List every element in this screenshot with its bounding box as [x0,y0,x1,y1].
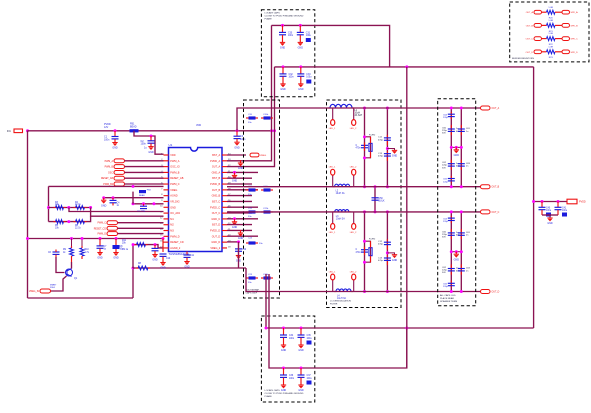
wire row14 right [227,229,252,231]
svg-text:LED_1: LED_1 [329,232,336,234]
capacitor C2 with ground [150,135,153,138]
node label OUT_B [481,185,491,189]
pin 25 U1 right PVDD_C [222,206,227,208]
inductor L4 [334,291,336,293]
svg-text:100n: 100n [104,138,110,141]
wire resistor to label [555,24,562,26]
node junction VDD rail B [273,129,276,132]
svg-text:100u: 100u [307,378,313,380]
svg-text:RESET_AB: RESET_AB [101,177,113,180]
wire left frame bottom [28,297,134,299]
pin 4 U1 left PWM_B [164,171,169,173]
wire PVDD rail2 [406,67,408,368]
svg-text:100u: 100u [307,338,313,340]
svg-text:C5 470p: C5 470p [137,211,146,213]
node label OUT_C [481,210,491,214]
wire EMI rail left AB [450,108,452,187]
svg-text:100u: 100u [306,77,312,79]
svg-text:BST_B: BST_B [212,177,220,180]
test pad LED_2 channel 1 top [353,108,355,120]
wire snubber bracket channel 2 [365,241,371,262]
svg-text:PLANE: PLANE [265,395,273,398]
wire EMI rail right CD [460,212,462,292]
pin 12 U1 left M1 [164,218,169,220]
svg-text:OUT_D: OUT_D [492,292,500,294]
wire PVDD_AB top [272,25,390,67]
svg-text:1.0R: 1.0R [548,20,553,22]
wire to resistor R21 [542,24,547,26]
pin 5 U1 left RESET_AB [164,177,169,179]
capacitor C22 [249,210,256,213]
svg-text:GND: GND [454,154,460,157]
wire pin row 9 [133,203,164,205]
capacitor C21 [249,188,256,191]
wire input horizontal [28,130,275,132]
wire bootstrap drop B [269,274,284,368]
pin 14 U1 left M3 [164,230,169,232]
test pad LED_1 channel 2 top [332,212,334,224]
svg-text:FILTER: FILTER [330,304,338,306]
wire right frame vertical [132,268,134,298]
svg-text:GND: GND [234,146,240,149]
svg-text:RESET_CD: RESET_CD [94,228,107,230]
svg-text:10uH 3A: 10uH 3A [336,217,345,220]
svg-text:GND: GND [454,258,460,261]
capacitor C9 with ground [154,243,157,246]
svg-text:SPEAKER TERM: SPEAKER TERM [440,300,457,303]
svg-text:PVDD_B: PVDD_B [210,183,220,186]
svg-text:1.0R: 1.0R [548,46,553,48]
svg-text:BEAD: BEAD [130,125,137,128]
node junction bottom-net input [26,237,29,240]
wire PWM_B2 to U1 [125,183,164,185]
svg-text:220p: 220p [443,221,449,223]
svg-text:LED_1: LED_1 [329,271,336,273]
wire PVDD_CD top [275,66,534,68]
pin 21 U1 right PVDD_D [222,230,227,232]
svg-text:OUT_D: OUT_D [526,52,534,54]
svg-text:M3: M3 [170,230,174,233]
wire RESET_CD to U1 [118,227,164,229]
capacitor C3 with ground [236,129,239,132]
capacitor C10 with ground [162,237,165,240]
wire PVDD vertical A [227,25,272,160]
wire PVDD_AB bottom [266,327,534,329]
svg-text:PVDD_A: PVDD_A [210,160,220,163]
pin 2 U1 left PWM_A [164,160,169,162]
wire RESET_AB to U1 [125,177,164,179]
wire PWM_D to U1 [118,233,164,235]
svg-text:GND_D: GND_D [211,241,220,244]
svg-text:470p: 470p [378,139,384,141]
capacitor C37 with ground [300,367,303,370]
capacitor EMI CD bottom small [450,281,452,288]
ground at row 8 [102,196,105,199]
ferrite bead FB1 [133,129,136,132]
wire C12 rail to row268 [238,242,240,268]
pin 23 U1 right GND_C [222,218,227,220]
svg-text:50V: 50V [442,167,446,169]
svg-text:100u: 100u [562,210,568,212]
svg-text:R 2R2: R 2R2 [369,239,376,241]
svg-text:VREG_IN: VREG_IN [29,291,39,293]
wire resistor to label [555,38,562,40]
capacitor C22b [264,210,271,213]
svg-text:GND_A: GND_A [212,171,221,174]
pin 17 U1 left AGND_2 [164,247,169,249]
capacitor C30 with ground [281,24,284,27]
svg-text:C36: C36 [289,375,294,377]
capacitor EMI AB r2c2 [460,160,462,170]
svg-text:470n: 470n [356,147,362,149]
svg-text:BST_D: BST_D [212,224,220,227]
pin 29 U1 right PVDD_B [222,183,227,185]
pin 11 U1 left OC_ADJ [164,212,169,214]
node junction row7 rail [132,185,135,188]
svg-text:LED_2: LED_2 [350,167,357,169]
svg-text:SPK_A: SPK_A [571,11,579,14]
resistor R6 [76,220,85,224]
svg-text:100n: 100n [240,138,246,141]
capacitor C33 with ground [299,65,302,68]
capacitor rail channel 2 lower [386,255,388,265]
svg-text:50V: 50V [442,133,446,135]
svg-text:LED_2: LED_2 [350,232,357,234]
svg-text:GND: GND [152,259,158,262]
svg-text:100u: 100u [546,210,552,212]
wire OUT_A [237,108,481,131]
svg-text:LOCATE CAPS: LOCATE CAPS [265,12,281,15]
svg-text:C31: C31 [306,32,311,34]
wire PWM_B to U1 [125,166,164,168]
resistor R22 [547,37,556,41]
capacitor EMI AB r1c2 [460,125,462,135]
svg-text:22.1k: 22.1k [75,227,81,229]
capacitor C40 [541,200,544,203]
node junction frame row [132,267,135,270]
svg-text:C35: C35 [307,335,312,337]
inductor L3 [333,211,335,213]
capacitor rail channel 1 lower [386,151,388,161]
wire pin row 8 [104,197,164,199]
svg-text:470p: 470p [378,156,384,158]
svg-text:3A SAT: 3A SAT [355,114,363,117]
capacitor C6 Q1 base [53,252,60,254]
svg-text:50V: 50V [442,272,446,274]
svg-text:GND: GND [160,267,166,270]
ground snubber channel 1 [386,147,389,150]
wire network loop top [49,185,164,187]
svg-text:BUFFER RESISTORS: BUFFER RESISTORS [512,58,535,60]
svg-text:1.0R: 1.0R [548,7,553,9]
svg-text:M1: M1 [170,218,174,221]
wire bootstrap drop A [265,274,267,328]
ground EMI CD [451,251,461,253]
svg-text:GND: GND [298,389,304,392]
svg-text:10uH 3A: 10uH 3A [336,192,345,195]
capacitor C20 [249,116,256,119]
wire R10 connections [81,239,83,247]
svg-text:VDD: VDD [170,154,175,157]
svg-text:PVDD_D: PVDD_D [210,230,220,233]
pin 9 U1 left VR_DIG [164,200,169,202]
wire resistor to label [555,11,562,13]
pin 19 U1 right GND_D [222,241,227,243]
svg-text:100n: 100n [288,35,294,37]
node junction row9 [132,202,135,205]
svg-text:OUT_B: OUT_B [492,187,500,189]
svg-text:R10: R10 [85,249,90,251]
capacitor EMI AB r2c1 [450,160,452,170]
capacitor C32 with ground [282,65,285,68]
section box PVDD decoupling top [261,10,314,97]
svg-text:22.1k: 22.1k [75,204,81,206]
svg-text:GND: GND [298,88,304,91]
svg-text:OUT_B: OUT_B [212,189,221,192]
svg-text:GND: GND [392,155,398,158]
node junction R9 top [70,237,73,240]
svg-text:220p: 220p [443,286,449,288]
svg-text:GND: GND [112,147,118,150]
svg-text:PVDD: PVDD [579,201,586,204]
capacitor C41 [557,200,560,203]
svg-text:PWM_C: PWM_C [170,183,180,186]
node label SPK_A [562,10,570,14]
svg-text:BULK: BULK [379,201,385,203]
svg-text:100n: 100n [289,378,295,380]
svg-text:CLOSE TO PVDD PINS AND GROUND: CLOSE TO PVDD PINS AND GROUND [265,15,304,18]
svg-text:AGND_2: AGND_2 [170,247,181,250]
wire to resistor R23 [542,51,547,53]
wire row12 right with ground [227,218,258,220]
ground PVCC caps [549,215,551,218]
svg-text:GND: GND [392,259,398,262]
svg-text:OUT_C: OUT_C [492,212,500,214]
svg-text:C20b: C20b [263,114,269,116]
svg-text:VREG_2: VREG_2 [210,247,220,250]
resistor R9 vertical [71,246,73,248]
pin 6 U1 left PWM_C [164,183,169,185]
svg-text:PWM_A: PWM_A [105,160,114,163]
svg-text:OUT_B: OUT_B [526,25,534,27]
node label OUT_D [481,290,491,294]
wire Q1 emitter to VREG [51,276,67,291]
capacitor C23b [264,276,271,279]
capacitor snubber channel 2 [361,250,368,252]
capacitor C31 with ground [299,24,302,27]
test pad LED_1 channel 1 top [332,108,334,120]
node label SPK_D [562,50,570,54]
svg-text:1.0R: 1.0R [548,33,553,35]
wire EMI rail right AB [460,108,462,187]
pin 28 U1 right OUT_B [222,189,227,191]
ground snubber channel 2 [386,251,389,254]
wire row11 right [227,212,252,214]
svg-text:LED_2: LED_2 [350,271,357,273]
wire resistor to label [555,51,562,53]
wire row7 right [227,189,258,191]
wire row13 right [227,224,252,226]
pin 34 U1 right BST_A [222,154,227,156]
node junction rail2 top [405,65,408,68]
transistor Q1 [66,269,73,276]
svg-text:GND: GND [298,47,304,50]
pin 27 U1 right GND_B [222,195,227,197]
op-amp IC U1 TAS5186A body [169,148,223,252]
capacitor C23 [249,276,256,279]
svg-text:SPK_D: SPK_D [571,52,579,54]
svg-text:12V: 12V [104,126,109,129]
wire OSC to U1 [125,171,164,173]
svg-text:TAS5186ADCA: TAS5186ADCA [169,252,190,256]
capacitor EMI CD r2c2 [460,265,462,275]
capacitor EMI AB top small [450,112,452,119]
wire PWM_A to U1 [125,160,164,162]
capacitor C21b [264,188,271,191]
svg-text:C32: C32 [289,74,294,76]
svg-text:OSC: OSC [108,172,113,174]
svg-text:GND: GND [238,237,244,240]
svg-text:RESET_AB: RESET_AB [170,177,183,180]
test pad LED_1 channel 2 bottom [332,280,334,292]
node IN junction [26,129,29,132]
svg-text:OUT_C: OUT_C [526,39,534,41]
capacitor EMI CD top small [450,216,452,223]
pin 7 U1 left VREG [164,189,169,191]
svg-text:LED_2: LED_2 [350,128,357,130]
svg-text:VREG: VREG [260,155,266,157]
capacitor EMI CD r1c1 [450,229,452,239]
wire VDD sub-rail [134,131,164,154]
resistor R10 vertical [81,246,83,248]
capacitor C20b [264,116,271,119]
svg-text:PLANE: PLANE [265,18,273,21]
svg-text:C37: C37 [307,375,312,377]
test pad LED_1 channel 1 bottom [332,175,334,187]
capacitor C4 [112,196,115,199]
svg-text:ALL CAPS C0G: ALL CAPS C0G [440,294,456,297]
resistor R3 [56,206,64,210]
pin 13 U1 left M2 [164,224,169,226]
svg-text:10uH 3A: 10uH 3A [337,297,346,300]
capacitor EMI CD r2c1 [450,265,452,275]
node junction R3-R4 [67,206,70,209]
svg-text:GND: GND [280,47,286,50]
pin 3 U1 left OSC_IO [164,166,169,168]
ground in box1 upper [240,160,242,163]
svg-text:GND: GND [547,222,553,225]
wire row4 right with ground [227,171,258,173]
pin 20 U1 right OUT_D [222,235,227,237]
svg-text:IN1: IN1 [7,130,11,133]
svg-text:OSC_IO: OSC_IO [170,166,180,169]
wire cap bracket [542,214,558,216]
wire step to pin row 11 [91,208,164,217]
node label SPK_C [562,37,570,41]
svg-text:OUT_A: OUT_A [526,11,534,14]
ferrite bead FB2 on row 7 [139,190,146,193]
svg-text:220p: 220p [443,117,449,119]
wire bottom row to mid vertical [90,216,91,221]
svg-text:VR_DIG: VR_DIG [170,200,179,203]
inductor L2 [333,186,335,188]
capacitor rail channel 2 upper [386,212,388,292]
svg-text:GND: GND [101,204,107,207]
svg-text:C30: C30 [288,32,293,34]
pin 10 U1 left GND [164,206,169,208]
svg-text:LED_1: LED_1 [329,128,336,130]
svg-text:GND: GND [232,180,238,183]
svg-text:M2: M2 [170,224,174,227]
capacitor snubber channel 1 [361,145,368,147]
pin 30 U1 right BST_B [222,177,227,179]
svg-text:VDD: VDD [196,124,201,127]
svg-text:RESET_CD: RESET_CD [170,241,184,244]
svg-text:VREG: VREG [170,189,177,192]
node label PVDD [567,199,577,204]
svg-text:OUT_A: OUT_A [492,107,500,110]
capacitor C24 in box1 [249,241,256,244]
svg-text:GND: GND [184,266,190,269]
resistor R23 [547,50,556,54]
svg-text:GND_C: GND_C [211,218,220,221]
pin 26 U1 right BST_C [222,200,227,202]
wire row9 right [227,200,252,202]
svg-text:100n: 100n [289,338,295,340]
net label right pin17 [227,241,239,243]
node junction VDD rail A [270,129,273,132]
svg-text:GND: GND [170,206,176,209]
test pad LED_2 channel 2 bottom [353,280,355,292]
resistor R8 [138,266,148,270]
wire network left vertical [48,186,50,221]
svg-text:470n: 470n [356,252,362,254]
pin 24 U1 right OUT_C [222,212,227,214]
node label OUT_A [481,106,491,110]
wire snubber bracket channel 1 [365,137,371,158]
svg-text:OUT_A: OUT_A [212,166,221,169]
test pad LED_2 channel 2 top [353,212,355,224]
svg-text:PWM_D: PWM_D [170,235,180,238]
svg-text:LOCATE CAPS: LOCATE CAPS [265,389,281,392]
svg-text:C34: C34 [289,335,294,337]
svg-text:BEAD: BEAD [139,194,145,197]
pin 16 U1 left RESET_CD [164,241,169,243]
section box EMI filter caps [438,99,476,306]
svg-text:PWM_B: PWM_B [170,171,180,174]
inductor L1 [328,107,330,109]
svg-text:U1: U1 [169,143,173,147]
svg-text:PWM_B2: PWM_B2 [103,184,113,186]
wire rowL vertical [132,245,134,268]
svg-text:OUT_D: OUT_D [212,235,221,238]
capacitor EMI AB bottom small [450,176,452,183]
capacitor C5 [142,202,145,205]
svg-text:CLOSE TO PVDD PINS AND GROUND: CLOSE TO PVDD PINS AND GROUND [265,392,304,395]
pin 18 U1 right VREG_2 [222,247,227,249]
wire to resistor R20 [542,11,547,13]
svg-text:PWM_C: PWM_C [97,223,106,225]
svg-text:C41: C41 [562,207,567,209]
section box LC output filter [327,100,402,308]
node junction rail2 bottom [405,327,408,330]
svg-text:SPK_B: SPK_B [571,25,579,27]
ground in box1 lower [240,230,242,233]
resistor snubber R channel 1 [369,143,372,151]
wire Q1 base [56,257,65,273]
svg-text:100n: 100n [141,143,147,146]
wire step to pin row 10 [69,208,164,212]
